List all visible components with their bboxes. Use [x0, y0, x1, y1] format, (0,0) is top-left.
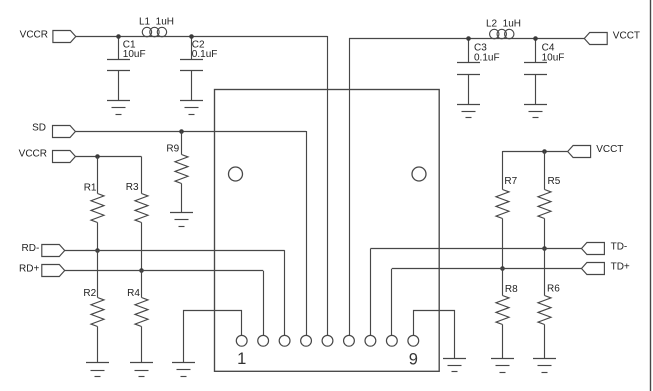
svg-text:R1: R1 — [84, 183, 97, 194]
svg-text:R9: R9 — [166, 143, 179, 154]
svg-text:R7: R7 — [504, 176, 517, 187]
svg-text:10uF: 10uF — [123, 49, 146, 60]
svg-text:R5: R5 — [548, 176, 561, 187]
svg-text:RD+: RD+ — [19, 264, 39, 275]
svg-text:VCCT: VCCT — [596, 144, 623, 155]
svg-text:R2: R2 — [83, 288, 96, 299]
svg-text:SD: SD — [32, 122, 46, 133]
svg-text:VCCR: VCCR — [20, 30, 48, 41]
svg-text:L2 1uH: L2 1uH — [486, 18, 521, 29]
svg-text:R3: R3 — [126, 182, 139, 193]
svg-text:10uF: 10uF — [542, 52, 565, 63]
svg-text:R4: R4 — [127, 288, 140, 299]
svg-text:0.1uF: 0.1uF — [192, 49, 218, 60]
svg-text:L1 1uH: L1 1uH — [139, 17, 174, 28]
svg-text:0.1uF: 0.1uF — [474, 52, 500, 63]
svg-text:R6: R6 — [547, 284, 560, 295]
svg-text:R8: R8 — [505, 284, 518, 295]
svg-text:VCCR: VCCR — [19, 149, 47, 160]
svg-text:1: 1 — [237, 350, 246, 368]
svg-text:TD-: TD- — [611, 241, 628, 252]
svg-text:TD+: TD+ — [611, 261, 630, 272]
svg-text:RD-: RD- — [22, 243, 40, 254]
svg-text:VCCT: VCCT — [613, 31, 640, 42]
svg-text:9: 9 — [409, 351, 418, 369]
